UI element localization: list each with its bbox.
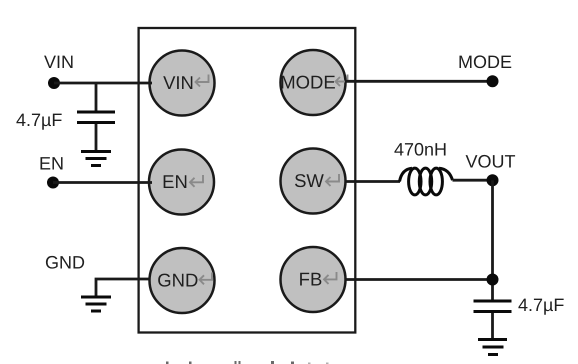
wire pin FB to VOUT net bbox=[345, 278, 493, 281]
label L1 value 470nH bbox=[394, 140, 447, 160]
svg-text:EN: EN bbox=[39, 154, 64, 174]
node MODE (dot) bbox=[487, 75, 499, 87]
pin MODE (circle) bbox=[280, 50, 347, 115]
pin SW (circle) bbox=[281, 149, 346, 214]
capacitor C2 bbox=[474, 301, 512, 312]
svg-text:MODE: MODE bbox=[280, 72, 336, 93]
pin FB (circle) bbox=[281, 247, 346, 312]
label C2 value 4.7µF bbox=[518, 295, 564, 315]
svg-text:VOUT: VOUT bbox=[466, 152, 516, 172]
pin VIN (circle) bbox=[150, 51, 215, 116]
wire pin GND to ground bbox=[96, 279, 150, 296]
svg-text:470nH: 470nH bbox=[394, 140, 447, 160]
wire VOUT node down to capacitor C2 bbox=[491, 180, 494, 299]
svg-text:4.7µF: 4.7µF bbox=[518, 295, 564, 315]
capacitor C1 bbox=[77, 112, 115, 123]
label VIN bbox=[44, 52, 74, 72]
pin GND (circle) bbox=[150, 248, 215, 313]
node VOUT (dot) bbox=[487, 174, 499, 186]
wire EN node to pin EN bbox=[53, 181, 152, 184]
label MODE bbox=[458, 52, 512, 72]
ground (below C1) bbox=[81, 152, 111, 166]
label VOUT bbox=[466, 152, 516, 172]
label GND bbox=[45, 253, 85, 273]
wire pin MODE to MODE node bbox=[345, 80, 493, 83]
wire VIN node to pin VIN bbox=[54, 82, 152, 85]
wire capacitor C2 bottom stub bbox=[491, 313, 494, 339]
node VIN (dot) bbox=[48, 77, 60, 89]
svg-text:SW: SW bbox=[294, 170, 324, 191]
wire pin SW to inductor L1 bbox=[345, 180, 400, 183]
svg-text:EN: EN bbox=[162, 171, 188, 192]
ground (GND pin) bbox=[81, 297, 111, 311]
wire inductor L1 to VOUT node bbox=[453, 179, 493, 182]
node EN (dot) bbox=[47, 177, 59, 189]
svg-text:VIN: VIN bbox=[44, 52, 74, 72]
svg-text:MODE: MODE bbox=[458, 52, 512, 72]
svg-text:GND: GND bbox=[45, 253, 85, 273]
wire capacitor C1 bottom stub bbox=[95, 124, 98, 151]
pin EN (circle) bbox=[149, 150, 214, 215]
wire capacitor C1 top stub bbox=[95, 83, 98, 111]
node FB junction (dot) bbox=[487, 274, 499, 286]
label C1 value 4.7µF bbox=[16, 110, 62, 130]
label EN bbox=[39, 154, 64, 174]
svg-text:GND: GND bbox=[157, 270, 198, 291]
svg-text:4.7µF: 4.7µF bbox=[16, 110, 62, 130]
svg-text:FB: FB bbox=[299, 269, 323, 290]
svg-text:VIN: VIN bbox=[163, 72, 194, 93]
caption text (cut off at bottom edge) bbox=[166, 361, 329, 364]
inductor L1 bbox=[400, 168, 453, 195]
ground (below C2) bbox=[478, 340, 507, 355]
IC body U1 bbox=[139, 28, 356, 333]
